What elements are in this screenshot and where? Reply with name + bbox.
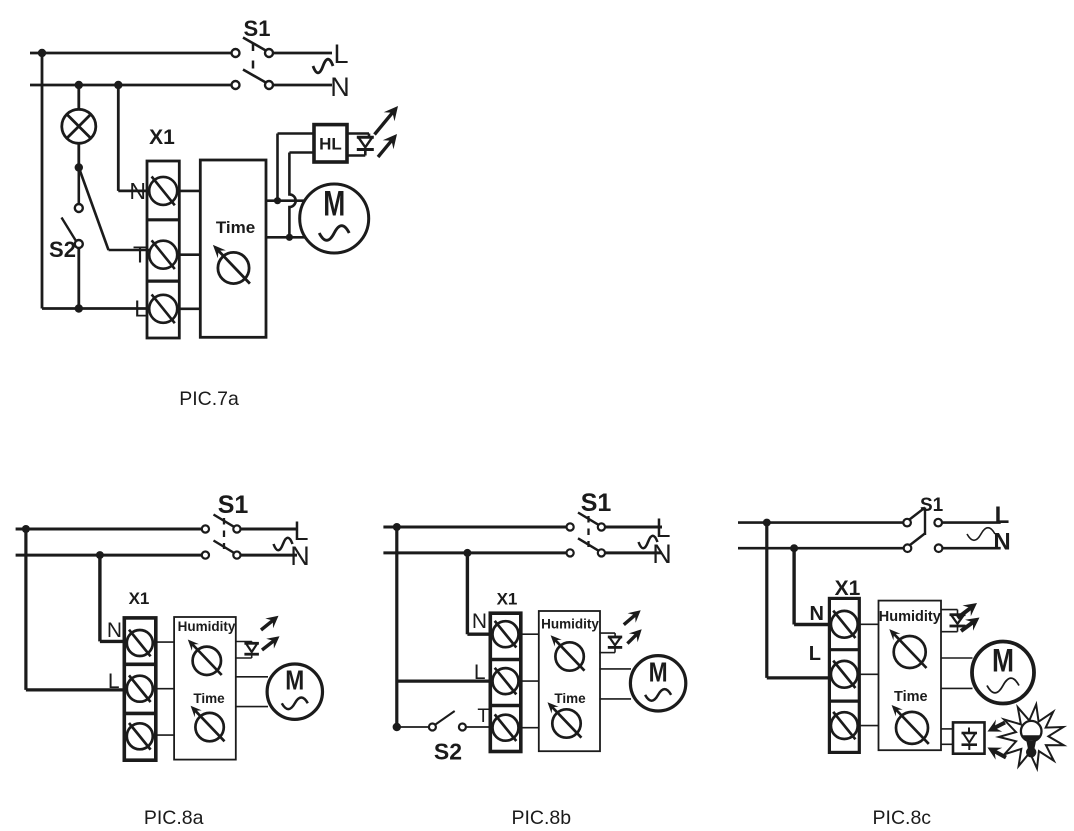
svg-text:Time: Time: [193, 691, 225, 706]
svg-text:X1: X1: [149, 126, 175, 149]
svg-text:N: N: [993, 529, 1010, 556]
svg-text:X1: X1: [129, 589, 150, 608]
svg-text:N: N: [290, 541, 310, 571]
svg-text:L: L: [134, 296, 147, 322]
svg-text:S1: S1: [244, 16, 271, 41]
svg-text:L: L: [474, 661, 486, 684]
svg-text:N: N: [472, 610, 487, 633]
svg-text:T: T: [477, 706, 489, 727]
svg-text:Time: Time: [894, 689, 928, 705]
svg-text:X1: X1: [835, 577, 861, 600]
svg-text:N: N: [107, 619, 122, 642]
svg-text:HL: HL: [319, 135, 342, 154]
svg-text:M: M: [992, 643, 1014, 679]
svg-text:L: L: [108, 670, 120, 693]
svg-text:PIC.8a: PIC.8a: [144, 807, 204, 829]
svg-text:M: M: [649, 656, 668, 687]
svg-text:X1: X1: [497, 590, 518, 609]
svg-text:N: N: [652, 539, 672, 569]
svg-text:M: M: [285, 665, 304, 696]
svg-text:PIC.8b: PIC.8b: [511, 807, 571, 829]
svg-text:S1: S1: [218, 491, 249, 519]
svg-text:PIC.7a: PIC.7a: [179, 388, 239, 410]
svg-text:Humidity: Humidity: [879, 609, 941, 625]
svg-text:Time: Time: [554, 691, 586, 706]
svg-text:M: M: [323, 185, 345, 224]
svg-text:N: N: [810, 603, 824, 625]
svg-text:L: L: [809, 643, 821, 665]
svg-text:L: L: [995, 502, 1010, 529]
svg-text:L: L: [333, 39, 348, 69]
svg-text:N: N: [330, 72, 350, 102]
svg-text:PIC.8c: PIC.8c: [873, 807, 932, 829]
svg-text:S1: S1: [920, 495, 944, 516]
svg-text:S1: S1: [581, 489, 612, 517]
svg-text:N: N: [129, 178, 146, 204]
svg-text:S2: S2: [434, 739, 462, 765]
svg-text:Time: Time: [216, 218, 255, 237]
svg-text:Humidity: Humidity: [178, 619, 236, 634]
svg-text:Humidity: Humidity: [541, 617, 599, 632]
svg-text:S2: S2: [49, 237, 76, 262]
svg-text:T: T: [133, 242, 147, 268]
